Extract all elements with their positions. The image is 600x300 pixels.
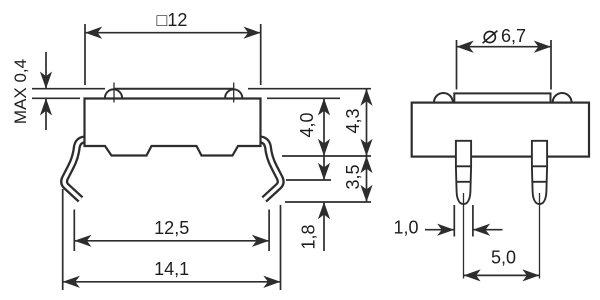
svg-text:4,3: 4,3 — [343, 108, 363, 133]
pin 2 (side view) — [532, 141, 547, 204]
centerline mark peg right — [233, 83, 235, 103]
plate-top reference line right segment — [248, 88, 371, 90]
dimension 1,8 upper stem — [323, 156, 325, 180]
dimension 1,0 left stem — [425, 229, 454, 231]
svg-text:4,0: 4,0 — [297, 112, 317, 137]
right leg (bent pin, front view) — [260, 139, 280, 199]
dimension line 14,1 — [63, 281, 281, 283]
dimension 12,5 extension line right — [268, 210, 270, 252]
body-top reference line left segment — [32, 97, 80, 99]
pin bend reference line — [286, 179, 331, 181]
dimension "square 12" extension line right — [260, 24, 262, 85]
pin tip reference line — [285, 201, 371, 203]
MAX 0,4 lower arrow stem — [45, 98, 47, 130]
button plate (side view) — [454, 93, 550, 102]
dimension 12,5 extension line left — [73, 210, 75, 252]
dome left (side view) — [434, 93, 453, 102]
dimension line 5,0 — [464, 274, 540, 276]
dimension 14,1 extension line right — [280, 205, 282, 290]
button plate (front view) — [106, 89, 242, 99]
pin 2 section line lower — [533, 181, 546, 183]
dimension 1,0 extension line left — [453, 205, 455, 237]
dimension line 12,5 — [74, 240, 269, 242]
left leg (bent pin, front view) — [64, 139, 85, 199]
dimension "square 12" extension line left — [84, 24, 86, 85]
centerline mark peg left — [113, 83, 115, 103]
dimension 1,0 extension line right — [472, 205, 474, 237]
label diameter 6,7 symbol — [483, 31, 498, 44]
pin 1 section line upper — [456, 165, 471, 167]
svg-text:14,1: 14,1 — [154, 259, 189, 279]
dimension line 4,0 — [323, 98, 325, 156]
dome right (side view) — [553, 93, 572, 102]
svg-text:1,8: 1,8 — [299, 224, 319, 249]
peg right (front view) — [225, 89, 242, 98]
svg-text:12,5: 12,5 — [154, 218, 189, 238]
switch body (front view) with standoff notches — [85, 99, 261, 156]
svg-text:3,5: 3,5 — [343, 164, 363, 189]
dimension 1,8 lower stem — [323, 202, 325, 251]
svg-text:1,0: 1,0 — [393, 218, 418, 238]
pin 2 centerline — [539, 193, 541, 279]
body-top reference line right segment — [267, 97, 340, 99]
pin 2 section line upper — [532, 165, 547, 167]
svg-text:6,7: 6,7 — [501, 26, 526, 46]
dimension 1,0 right stem — [473, 229, 503, 231]
dimension line 4,3 — [366, 89, 368, 156]
seating plane reference line — [282, 155, 371, 157]
dimension 6,7 extension line left — [456, 40, 458, 90]
svg-text:□12: □12 — [157, 10, 188, 30]
svg-text:5,0: 5,0 — [491, 248, 516, 268]
peg left (front view) — [105, 89, 122, 98]
dimension line 3,5 — [366, 156, 368, 202]
dimension 6,7 extension line right — [550, 40, 552, 90]
plate-top reference line left segment — [32, 88, 105, 90]
dimension line 6,7 — [457, 46, 552, 48]
pin 1 section line lower — [457, 181, 470, 183]
pin 1 centerline — [463, 193, 465, 279]
dimension 14,1 extension line left — [62, 189, 64, 290]
MAX 0,4 upper arrow stem — [45, 52, 47, 89]
svg-text:MAX 0,4: MAX 0,4 — [11, 59, 30, 124]
dimension line square 12 — [85, 32, 261, 34]
pin 1 (side view) — [456, 141, 471, 204]
switch body (side view) — [412, 103, 589, 157]
